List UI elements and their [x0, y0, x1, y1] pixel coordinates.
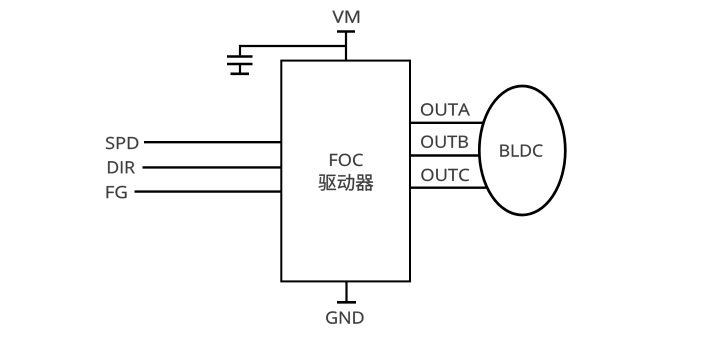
ground bar under capacitor	[231, 64, 250, 74]
wire VM rail to capacitor	[239, 45, 346, 47]
wire OUTC phase	[410, 186, 486, 188]
capacitor bypass C	[227, 45, 253, 64]
motor label BLDC	[500, 144, 542, 156]
ground terminal bar	[337, 301, 356, 304]
block label 驱动器	[319, 174, 374, 191]
wire SPD input	[144, 141, 281, 143]
net label SPD	[106, 137, 138, 149]
wire OUTA phase	[410, 122, 484, 124]
wire GND stub	[345, 282, 347, 303]
wire OUTB phase	[410, 154, 480, 156]
net label VM	[332, 11, 359, 23]
net label GND	[326, 311, 363, 323]
net label FG	[107, 186, 127, 198]
net label OUTC	[421, 169, 469, 181]
wire DIR input	[143, 166, 282, 168]
FOC driver block U1	[281, 61, 410, 282]
motor BLDC ellipse	[479, 86, 565, 215]
power VM terminal bar	[337, 30, 355, 33]
wire FG input	[135, 190, 282, 192]
wire VM vertical into block	[345, 32, 347, 62]
net label DIR	[108, 161, 135, 173]
net label OUTB	[421, 136, 468, 148]
net label OUTA	[421, 103, 470, 115]
block label FOC	[330, 154, 363, 166]
